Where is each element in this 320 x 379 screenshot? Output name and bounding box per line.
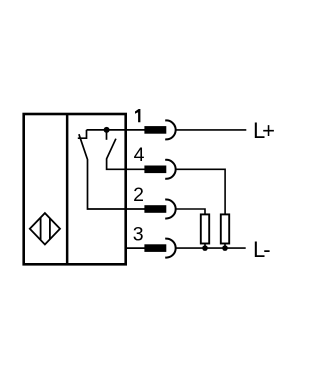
svg-text:2: 2 [133,184,144,206]
svg-text:+: + [262,118,275,143]
svg-text:4: 4 [134,144,145,166]
svg-text:-: - [263,237,270,262]
svg-text:3: 3 [133,224,144,246]
